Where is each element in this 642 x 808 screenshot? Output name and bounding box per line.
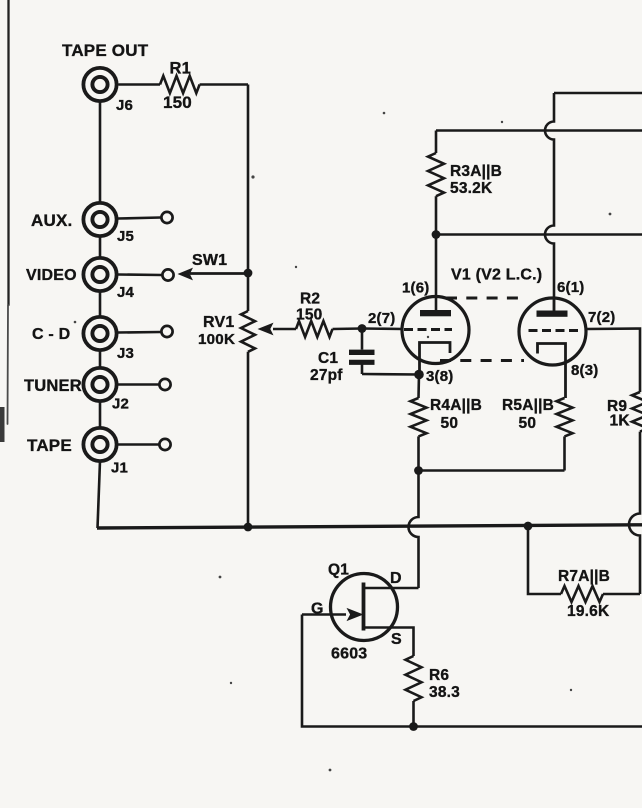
wire bus node down to R7 left <box>528 526 561 594</box>
svg-text:R4A||B: R4A||B <box>430 397 482 414</box>
svg-text:150: 150 <box>296 307 322 324</box>
jack J6 TAPE OUT <box>62 41 149 114</box>
wire C1 to cathode node 3(8) <box>362 373 419 376</box>
junction R6 bottom node <box>409 722 418 731</box>
svg-text:R3A||B: R3A||B <box>450 163 502 180</box>
wire R9 down over bus to R7 with hop <box>629 432 640 594</box>
svg-text:8(3): 8(3) <box>571 362 598 379</box>
wire R4 node down to Q1 drain with hop over bus <box>409 471 419 589</box>
svg-text:R7A||B: R7A||B <box>558 568 610 585</box>
wire gate loop <box>302 615 642 727</box>
ground bus <box>97 525 642 528</box>
wire R2 to grid node <box>333 327 363 330</box>
wiper arrow of RV1 <box>258 323 297 336</box>
switch contact at J5 <box>161 212 172 223</box>
svg-text:6(1): 6(1) <box>557 279 584 296</box>
wire J3 to J2 <box>99 350 102 368</box>
resistor R5A||B 50 <box>502 397 573 471</box>
junction SW1 node <box>244 269 253 278</box>
svg-text:C - D: C - D <box>32 326 70 343</box>
wire V1b grid to right edge <box>586 329 640 393</box>
switch contact at J1 <box>159 439 170 450</box>
resistor R4A||B 50 <box>411 374 483 471</box>
svg-text:D: D <box>390 570 402 587</box>
svg-text:6603: 6603 <box>331 646 367 663</box>
wire J3 to contact <box>118 331 161 334</box>
jack J5 AUX <box>31 203 134 245</box>
dashed envelope bottom <box>440 359 524 362</box>
svg-text:38.3: 38.3 <box>429 684 460 701</box>
wire R4 bottom to R5 bottom <box>419 469 565 472</box>
transistor Q1 6603 <box>302 562 419 663</box>
jack J1 TAPE <box>27 428 128 477</box>
svg-text:S: S <box>391 631 402 648</box>
svg-text:19.6K: 19.6K <box>567 603 610 620</box>
wire J4 to contact <box>118 273 162 276</box>
junction R7 branch at bus <box>524 522 533 531</box>
wire supply line C plate feed <box>436 233 642 236</box>
junction R3 bottom node <box>432 230 441 239</box>
svg-text:J6: J6 <box>116 97 133 114</box>
resistor R1 150 <box>160 60 200 113</box>
svg-text:150: 150 <box>163 93 192 112</box>
svg-text:V1 (V2 L.C.): V1 (V2 L.C.) <box>451 267 542 284</box>
svg-text:RV1: RV1 <box>203 314 234 331</box>
resistor R2 150 <box>296 291 333 338</box>
wire J2 to J1 <box>99 401 102 428</box>
svg-text:1(6): 1(6) <box>402 280 429 297</box>
junction grid node 2(7) <box>358 324 367 333</box>
switch contact at J2 <box>159 379 170 390</box>
wire top supply line A <box>554 92 642 95</box>
jack J3 C-D <box>32 317 134 362</box>
switch contact at J3 <box>161 326 172 337</box>
svg-text:Q1: Q1 <box>328 562 349 579</box>
svg-text:53.2K: 53.2K <box>450 180 493 197</box>
svg-text:7(2): 7(2) <box>588 309 615 326</box>
svg-text:2(7): 2(7) <box>368 310 395 327</box>
potentiometer RV1 100K <box>198 273 255 527</box>
svg-text:100K: 100K <box>198 331 235 348</box>
wire R1 to main vertical <box>200 83 248 86</box>
junction cathode node 3(8) <box>414 370 424 380</box>
capacitor C1 27pf <box>310 329 375 385</box>
wire J1 to contact <box>118 443 159 446</box>
svg-text:R1: R1 <box>170 60 192 78</box>
switch contact at J4 <box>162 269 173 280</box>
dashed envelope top <box>446 297 521 300</box>
wire J6 to R1 <box>119 83 161 86</box>
svg-text:C1: C1 <box>318 350 338 367</box>
resistor R3A||B 53.2K <box>428 131 502 235</box>
svg-text:AUX.: AUX. <box>31 211 72 230</box>
wire J4 to J3 <box>99 291 102 317</box>
wire supply line B to R3 <box>436 129 642 132</box>
wire vertical to V1b plate with hops <box>545 93 554 311</box>
svg-text:J1: J1 <box>111 460 128 477</box>
switch SW1 arrow <box>178 252 249 280</box>
wire J5 to J4 <box>99 236 102 259</box>
svg-text:1K: 1K <box>610 413 631 430</box>
resistor R9 1K <box>607 392 642 432</box>
svg-text:VIDEO: VIDEO <box>26 267 77 284</box>
svg-text:3(8): 3(8) <box>426 368 453 385</box>
svg-text:R2: R2 <box>300 291 320 308</box>
svg-text:J2: J2 <box>112 396 129 413</box>
triode V1a <box>402 297 469 374</box>
wire grid node to tube V1a grid <box>362 327 403 330</box>
svg-text:J4: J4 <box>117 284 135 301</box>
svg-text:50: 50 <box>441 415 459 432</box>
svg-text:TAPE: TAPE <box>27 436 72 455</box>
svg-text:J5: J5 <box>117 228 134 245</box>
svg-text:G: G <box>311 601 324 618</box>
wire main vertical R1 down to SW1 node <box>247 85 250 274</box>
svg-text:R6: R6 <box>429 667 449 684</box>
resistor R7A||B 19.6K <box>558 568 640 620</box>
wire J6 down to J5 <box>99 102 102 203</box>
jack J4 VIDEO <box>26 258 135 301</box>
svg-text:27pf: 27pf <box>310 367 343 384</box>
wire R3 node down to V1a plate <box>435 235 438 312</box>
svg-text:R5A||B: R5A||B <box>502 397 554 414</box>
triode V1b <box>519 298 586 398</box>
jack J2 TUNER <box>24 368 129 413</box>
wire J5 to contact <box>118 218 161 219</box>
resistor R6 38.3 <box>406 656 461 727</box>
svg-text:TAPE OUT: TAPE OUT <box>62 41 149 60</box>
wire J1 down to ground bus <box>98 461 101 528</box>
svg-text:TUNER: TUNER <box>24 377 82 395</box>
svg-text:J3: J3 <box>117 345 134 362</box>
junction R4 bottom node <box>414 466 423 475</box>
junction RV1 at bus <box>244 523 253 532</box>
wire J2 to contact <box>118 383 159 386</box>
svg-text:SW1: SW1 <box>192 252 227 269</box>
svg-text:50: 50 <box>519 415 537 432</box>
